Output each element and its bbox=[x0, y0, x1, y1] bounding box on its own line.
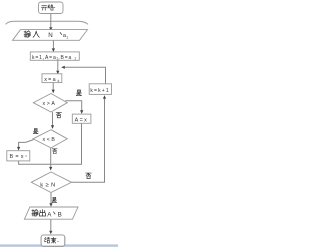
svg-text:x=a: x=a bbox=[44, 77, 57, 83]
svg-text:k=k+1: k=k+1 bbox=[90, 88, 109, 94]
svg-text:N: N bbox=[48, 32, 52, 39]
svg-text:x>A: x>A bbox=[43, 101, 57, 107]
svg-text:B=x: B=x bbox=[10, 154, 26, 160]
svg-text:A=x: A=x bbox=[75, 118, 89, 124]
svg-text:k=1,A=a: k=1,A=a bbox=[32, 55, 57, 61]
svg-text:k: k bbox=[58, 79, 60, 83]
svg-text:x<B: x<B bbox=[43, 137, 57, 143]
svg-text:1: 1 bbox=[74, 57, 76, 61]
svg-text:1: 1 bbox=[66, 35, 68, 39]
svg-text:k≥N: k≥N bbox=[40, 183, 57, 189]
svg-text:,B=a: ,B=a bbox=[58, 55, 72, 61]
svg-text:B: B bbox=[58, 212, 62, 219]
